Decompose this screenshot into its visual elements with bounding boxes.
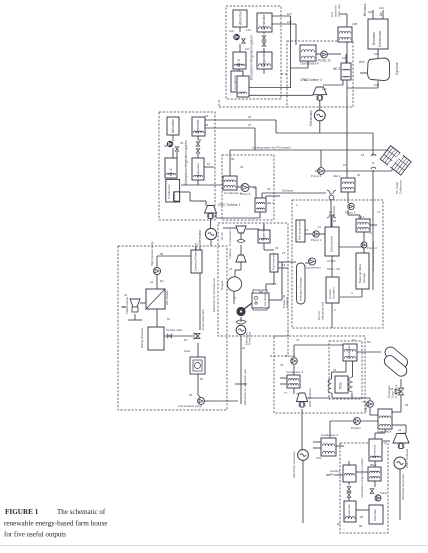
svg-text:Absorber: Absorber <box>373 509 377 521</box>
svg-text:103: 103 <box>374 83 379 87</box>
svg-text:Electricity: Electricity <box>332 205 336 218</box>
svg-text:6A: 6A <box>367 340 371 344</box>
svg-text:100: 100 <box>368 10 373 14</box>
svg-text:69: 69 <box>405 403 409 407</box>
svg-text:dom. use: dom. use <box>337 4 341 17</box>
svg-text:& Others: & Others <box>285 296 289 308</box>
svg-text:Evaporator: Evaporator <box>347 345 351 359</box>
svg-text:TEG: TEG <box>339 382 343 389</box>
svg-text:Collectors: Collectors <box>399 180 403 194</box>
svg-text:68: 68 <box>390 387 394 391</box>
svg-text:101: 101 <box>379 6 384 10</box>
svg-text:Generator: Generator <box>373 444 377 458</box>
svg-text:30: 30 <box>267 187 271 191</box>
svg-text:39: 39 <box>198 138 202 142</box>
svg-text:ORC Turbine 1: ORC Turbine 1 <box>218 203 241 207</box>
svg-text:113: 113 <box>246 28 251 32</box>
svg-text:Evaporator: Evaporator <box>196 163 200 178</box>
svg-text:Fuel reservoir: Fuel reservoir <box>272 252 276 270</box>
svg-text:108: 108 <box>342 56 347 60</box>
svg-text:Generator: Generator <box>248 331 252 345</box>
svg-text:Absorber: Absorber <box>239 10 243 25</box>
svg-text:40: 40 <box>164 144 168 148</box>
svg-text:Generator: Generator <box>198 229 202 245</box>
svg-text:Pump 6: Pump 6 <box>240 192 251 196</box>
svg-text:Generator: Generator <box>309 109 313 126</box>
svg-text:High pressure pump: High pressure pump <box>150 241 154 266</box>
svg-text:14: 14 <box>282 263 286 267</box>
svg-text:Electricity Generator: Electricity Generator <box>401 474 405 500</box>
svg-text:Cyclone: Cyclone <box>395 62 399 75</box>
svg-text:Generator: Generator <box>196 118 200 134</box>
svg-text:Electricity for domestic use: Electricity for domestic use <box>212 277 216 312</box>
svg-text:96: 96 <box>359 524 363 528</box>
svg-text:Electricity for domestic use: Electricity for domestic use <box>243 369 247 405</box>
svg-text:Biomass: Biomass <box>363 3 367 16</box>
svg-text:74: 74 <box>296 338 300 342</box>
svg-text:87: 87 <box>337 522 341 526</box>
svg-text:56: 56 <box>200 377 204 381</box>
svg-text:A H2O: A H2O <box>327 259 336 263</box>
svg-text:111: 111 <box>304 78 309 82</box>
svg-text:Turbine: Turbine <box>228 248 232 259</box>
svg-text:HE 2: HE 2 <box>333 174 340 178</box>
svg-text:45: 45 <box>180 141 184 145</box>
svg-text:Evaporator: Evaporator <box>347 504 351 518</box>
svg-text:64: 64 <box>184 338 188 342</box>
svg-text:10: 10 <box>329 210 333 214</box>
svg-text:Fresh water tank: Fresh water tank <box>201 309 205 330</box>
svg-text:Pelton turbine: Pelton turbine <box>125 297 129 314</box>
svg-text:15: 15 <box>207 162 211 166</box>
svg-text:117: 117 <box>245 47 250 51</box>
svg-text:FIGURE 1: FIGURE 1 <box>5 508 39 516</box>
svg-text:Hot water to farmhouse: Hot water to farmhouse <box>371 241 375 271</box>
svg-text:Fish pond water: Fish pond water <box>298 220 302 240</box>
svg-text:19: 19 <box>343 163 347 167</box>
svg-text:24: 24 <box>205 114 209 118</box>
svg-text:23: 23 <box>398 428 402 432</box>
svg-text:72: 72 <box>352 338 356 342</box>
svg-text:Regenerator: Regenerator <box>262 224 266 241</box>
svg-text:36: 36 <box>231 157 235 161</box>
svg-text:70A: 70A <box>316 456 321 460</box>
svg-text:77: 77 <box>284 391 288 395</box>
svg-text:Pump 1: Pump 1 <box>311 238 322 242</box>
svg-text:Electricity Generator: Electricity Generator <box>292 451 296 478</box>
svg-text:95: 95 <box>360 515 364 519</box>
svg-text:HE 3: HE 3 <box>333 67 340 71</box>
svg-text:Throttle valve: Throttle valve <box>166 328 183 332</box>
svg-text:18: 18 <box>361 153 365 157</box>
svg-text:43: 43 <box>124 293 128 297</box>
svg-text:Chemical Pretreatment: Chemical Pretreatment <box>194 243 198 271</box>
svg-text:17: 17 <box>233 296 237 300</box>
svg-text:Condenser 3: Condenser 3 <box>286 370 304 374</box>
svg-text:11: 11 <box>318 225 321 229</box>
svg-text:Ring: Ring <box>330 473 336 477</box>
svg-text:M1: M1 <box>160 279 164 283</box>
svg-text:for five useful outputs: for five useful outputs <box>4 531 66 539</box>
svg-text:55: 55 <box>189 393 193 397</box>
svg-text:58: 58 <box>160 252 164 256</box>
svg-text:110: 110 <box>322 87 327 91</box>
svg-text:22: 22 <box>333 219 337 223</box>
svg-text:RO module: RO module <box>165 290 169 305</box>
svg-text:Generator: Generator <box>262 13 266 30</box>
svg-text:26: 26 <box>248 115 252 119</box>
svg-text:27: 27 <box>248 123 252 127</box>
svg-text:Industrial Use: Industrial Use <box>321 301 325 320</box>
svg-text:Collectors: Collectors <box>394 384 398 398</box>
svg-text:Biogas: Biogas <box>220 280 224 290</box>
svg-text:Hydrogen Storage: Hydrogen Storage <box>299 277 303 301</box>
svg-text:Air 21: Air 21 <box>220 232 224 240</box>
svg-text:Pump 3: Pump 3 <box>345 211 356 215</box>
svg-text:Ash: Ash <box>359 60 365 64</box>
svg-text:HE 1: HE 1 <box>267 201 274 205</box>
svg-text:Absorption refrigeration syste: Absorption refrigeration system <box>184 140 188 185</box>
svg-text:Mixing Chamber: Mixing Chamber <box>140 328 144 348</box>
svg-text:A3: A3 <box>121 305 125 309</box>
svg-text:HE 4: HE 4 <box>169 168 173 176</box>
svg-text:Pump: Pump <box>380 491 388 495</box>
svg-text:Compressor: Compressor <box>305 266 321 270</box>
svg-text:H2O + O2: H2O + O2 <box>327 267 340 271</box>
svg-text:Pump7: Pump7 <box>351 426 361 430</box>
svg-text:205: 205 <box>352 22 357 26</box>
svg-text:Storage: Storage <box>362 273 366 283</box>
svg-text:15: 15 <box>273 282 277 286</box>
svg-text:31: 31 <box>275 246 279 250</box>
svg-text:Absorber: Absorber <box>171 118 175 133</box>
svg-text:Absorption refrigeration syste: Absorption refrigeration system <box>360 458 364 498</box>
svg-text:HE 8: HE 8 <box>237 59 241 67</box>
svg-text:Filter: Filter <box>184 349 190 353</box>
svg-text:104: 104 <box>374 52 379 56</box>
svg-text:16: 16 <box>229 267 233 271</box>
svg-text:37: 37 <box>253 186 257 190</box>
svg-text:Low pressure pump: Low pressure pump <box>178 404 203 408</box>
svg-text:ORC Turbine3: ORC Turbine3 <box>308 387 312 407</box>
svg-text:13: 13 <box>282 251 286 255</box>
svg-text:Absorption refrigeration syste: Absorption refrigeration system <box>250 35 254 80</box>
svg-text:Pump 11: Pump 11 <box>318 59 331 63</box>
svg-text:renewable energy-based farm ho: renewable energy-based farm house <box>4 520 107 528</box>
svg-text:Solar HEX: Solar HEX <box>377 430 392 434</box>
svg-text:20: 20 <box>242 346 246 350</box>
svg-text:Evaporator: Evaporator <box>262 50 266 67</box>
svg-text:The schematic of: The schematic of <box>57 508 106 516</box>
svg-text:HE 2: HE 2 <box>370 463 377 467</box>
svg-text:Pump 8: Pump 8 <box>364 402 368 412</box>
svg-text:118: 118 <box>229 29 234 33</box>
svg-text:Condenser: Condenser <box>167 184 171 199</box>
svg-text:78: 78 <box>296 392 300 396</box>
svg-text:Condenser: Condenser <box>233 75 237 90</box>
svg-text:25: 25 <box>205 123 209 127</box>
svg-text:Condenser 4: Condenser 4 <box>300 62 319 66</box>
svg-text:Cooling water for PV panels: Cooling water for PV panels <box>252 146 291 150</box>
svg-text:20: 20 <box>357 173 361 177</box>
svg-text:Scrubber: Scrubber <box>332 287 336 299</box>
svg-text:Condenser 2: Condenser 2 <box>321 433 339 437</box>
svg-text:eco-Engine: eco-Engine <box>263 291 267 306</box>
svg-text:51: 51 <box>167 317 171 321</box>
svg-text:71: 71 <box>377 210 381 214</box>
svg-text:127: 127 <box>287 20 292 24</box>
svg-text:34: 34 <box>240 165 244 169</box>
svg-text:Exhaust: Exhaust <box>282 189 293 193</box>
svg-text:Biomass: Biomass <box>372 32 376 45</box>
svg-text:73: 73 <box>333 368 337 372</box>
svg-text:Compressor: Compressor <box>228 229 232 246</box>
svg-text:A1: A1 <box>150 280 154 284</box>
svg-text:76: 76 <box>280 363 284 367</box>
svg-text:Pump 9: Pump 9 <box>285 354 296 358</box>
svg-text:107: 107 <box>287 12 292 16</box>
svg-text:Combustor: Combustor <box>378 30 382 47</box>
svg-text:Electrolyzer: Electrolyzer <box>330 236 334 252</box>
svg-text:HE 1: HE 1 <box>358 215 365 219</box>
svg-text:12: 12 <box>305 228 309 232</box>
